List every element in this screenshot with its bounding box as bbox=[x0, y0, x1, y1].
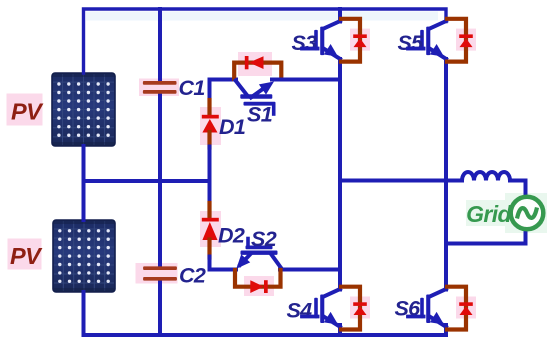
wire D-branch dark-red above D1 bbox=[207, 100, 211, 116]
transistor S1 channel bar bbox=[240, 94, 272, 98]
svg-text:S2: S2 bbox=[251, 227, 277, 251]
free-wheel diode of S4 bbox=[341, 287, 370, 330]
wire leg A bottom stub bbox=[338, 325, 342, 335]
svg-text:Grid: Grid bbox=[466, 201, 512, 227]
free-wheel diode loop of S1 bbox=[234, 63, 281, 79]
svg-text:S1: S1 bbox=[247, 103, 272, 127]
wire capacitor branch bottom bbox=[158, 280, 162, 335]
free-wheel diode of S6 bbox=[447, 287, 476, 330]
svg-text:S5: S5 bbox=[397, 31, 424, 55]
transistor S6 gate lead bbox=[408, 315, 424, 319]
transistor S2 emitter with arrow bbox=[240, 255, 250, 266]
svg-text:D2: D2 bbox=[218, 224, 245, 248]
wire D-branch blue below D2 with corner bbox=[210, 257, 237, 270]
highlight behind S1 free-wheel diode bbox=[238, 52, 272, 76]
transistor S3 bbox=[302, 21, 340, 59]
wire leg A middle section bbox=[338, 59, 342, 290]
transistor S3 gate lead bbox=[302, 47, 318, 51]
pale scan artifact under top rail bbox=[86, 12, 438, 21]
wire leg A top stub bbox=[338, 9, 342, 22]
transistor S2 channel bar bbox=[241, 251, 278, 255]
inductor L bbox=[462, 172, 510, 181]
highlight behind C2 bbox=[136, 263, 178, 284]
svg-text:S3: S3 bbox=[291, 31, 317, 55]
transistor S5 gate lead bbox=[408, 47, 424, 51]
wire D-branch blue above D1 bbox=[210, 80, 237, 102]
AC source sine wave bbox=[518, 208, 537, 218]
wire D-branch dark-red below D2 bbox=[207, 240, 211, 258]
diode D2 bbox=[202, 218, 219, 222]
wire D-branch blue below D1 bbox=[208, 147, 212, 184]
solar panel PV1 bbox=[0, 0, 1, 1]
free-wheel diode of S1 (points left) bbox=[245, 56, 249, 69]
svg-text:C2: C2 bbox=[179, 264, 206, 288]
transistor S2 gate tick bbox=[246, 239, 250, 247]
wire S2 output to leg A bbox=[280, 268, 340, 272]
wire mid-right rail bbox=[340, 179, 462, 183]
wire capacitor branch middle bbox=[158, 94, 162, 267]
wire leg B middle section bbox=[444, 59, 448, 290]
wire left column between PV1 and PV2 bbox=[82, 146, 86, 220]
wire D-branch dark-red below D1 bbox=[207, 132, 211, 148]
transistor S6 bbox=[408, 289, 446, 327]
transistor S4 bbox=[302, 289, 340, 327]
svg-text:S4: S4 bbox=[286, 299, 312, 323]
wire left column below PV2 and bottom rail bbox=[84, 292, 447, 335]
highlight behind D1 bbox=[200, 107, 221, 145]
highlight behind PV2 label bbox=[8, 239, 42, 270]
svg-text:PV: PV bbox=[11, 99, 44, 125]
capacitor C2 bbox=[143, 266, 177, 270]
transistor S1 collector diagonal bbox=[236, 81, 247, 95]
free-wheel diode of S5 bbox=[447, 19, 476, 62]
highlight behind S2 free-wheel diode bbox=[244, 276, 274, 296]
highlight behind C1 bbox=[139, 79, 179, 97]
solar panel PV2 bbox=[0, 0, 1, 1]
highlight behind PV1 label bbox=[7, 94, 43, 126]
svg-text:PV: PV bbox=[10, 243, 43, 269]
free-wheel diode of S3 bbox=[341, 19, 370, 62]
transistor S1 gate tick bbox=[272, 106, 276, 114]
transistor S1 emitter with arrow bbox=[251, 90, 262, 98]
wire S1 output to leg A bbox=[272, 78, 340, 82]
svg-text:D1: D1 bbox=[219, 115, 245, 139]
highlight behind D2 bbox=[200, 211, 221, 247]
wire D-branch dark-red above D2 bbox=[207, 203, 211, 219]
diode D1 bbox=[202, 115, 219, 119]
transistor S5 bbox=[408, 21, 446, 59]
AC source circle bbox=[511, 197, 544, 230]
wire top rail with left drop to PV1 and right drop to S5 bbox=[84, 9, 447, 73]
transistor S1 gate bar bbox=[244, 102, 276, 106]
highlight behind grid symbol bbox=[505, 193, 547, 233]
transistor S2 collector diagonal bbox=[271, 254, 282, 269]
svg-text:C1: C1 bbox=[179, 76, 205, 100]
free-wheel diode of S2 (points right) bbox=[264, 280, 268, 293]
wire capacitor branch top bbox=[158, 9, 162, 82]
wire D-branch blue above D2 bbox=[208, 179, 212, 204]
transistor S2 gate bar bbox=[246, 246, 273, 250]
wire mid-left rail bbox=[84, 179, 210, 183]
free-wheel diode loop of S2 bbox=[235, 270, 281, 287]
wire inductor to grid corner bbox=[446, 181, 526, 244]
wire leg B bottom stub bbox=[444, 325, 448, 335]
capacitor C1 bbox=[143, 81, 177, 85]
transistor S4 gate lead bbox=[302, 315, 318, 319]
